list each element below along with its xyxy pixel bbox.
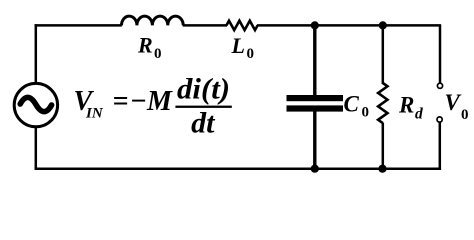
wire: top rail from left corner to inductor xyxy=(35,24,122,27)
svg-text:di(t): di(t) xyxy=(177,73,230,106)
inductor R0 (coil, 4 humps) xyxy=(122,16,184,25)
svg-text:0: 0 xyxy=(154,46,162,62)
wire: right vertical from V0 bottom terminal to bottom rail xyxy=(439,122,442,170)
svg-text:dt: dt xyxy=(191,107,216,140)
svg-text:0: 0 xyxy=(461,107,469,123)
resistor L0 (zigzag) xyxy=(226,21,257,30)
wire: bottom rail xyxy=(35,167,442,170)
svg-text:d: d xyxy=(415,106,423,123)
equation VIN = -M di(t)/dt xyxy=(74,73,232,140)
capacitor C0 top lead xyxy=(313,25,316,95)
svg-text:−M: −M xyxy=(130,86,173,117)
terminal: V0 top (open circle) xyxy=(437,83,442,88)
wire: right vertical from top rail to V0 top terminal xyxy=(439,25,442,83)
wire: between inductor R0 and resistor L0 xyxy=(183,24,227,27)
svg-text:C: C xyxy=(344,92,360,117)
wire: top rail from L0 to right corner xyxy=(257,24,441,27)
wire: left vertical top (source to top rail) xyxy=(35,24,38,83)
svg-text:V: V xyxy=(445,90,462,115)
svg-text:R: R xyxy=(398,92,414,117)
resistor Rd (vertical zigzag) xyxy=(378,83,387,123)
terminal: V0 bottom (open circle) xyxy=(437,117,442,122)
svg-text:0: 0 xyxy=(362,104,370,120)
junction dot: bottom node of C0 xyxy=(311,165,319,173)
source VIN (AC source circle with sine) xyxy=(14,83,57,126)
capacitor C0 bottom lead xyxy=(313,111,316,169)
junction dot: bottom node of Rd xyxy=(378,165,386,173)
svg-text:=: = xyxy=(113,86,129,117)
resistor Rd top lead xyxy=(382,25,385,84)
svg-text:IN: IN xyxy=(85,106,104,122)
resistor Rd bottom lead xyxy=(382,123,385,169)
junction dot: top node of C0 xyxy=(311,21,319,29)
svg-text:R: R xyxy=(137,32,153,57)
capacitor C0 plates xyxy=(287,95,344,101)
junction dot: top node of Rd xyxy=(379,21,387,29)
wire: left vertical bottom (source to bottom rail) xyxy=(35,127,38,170)
svg-text:0: 0 xyxy=(247,46,255,62)
svg-text:L: L xyxy=(231,33,245,58)
